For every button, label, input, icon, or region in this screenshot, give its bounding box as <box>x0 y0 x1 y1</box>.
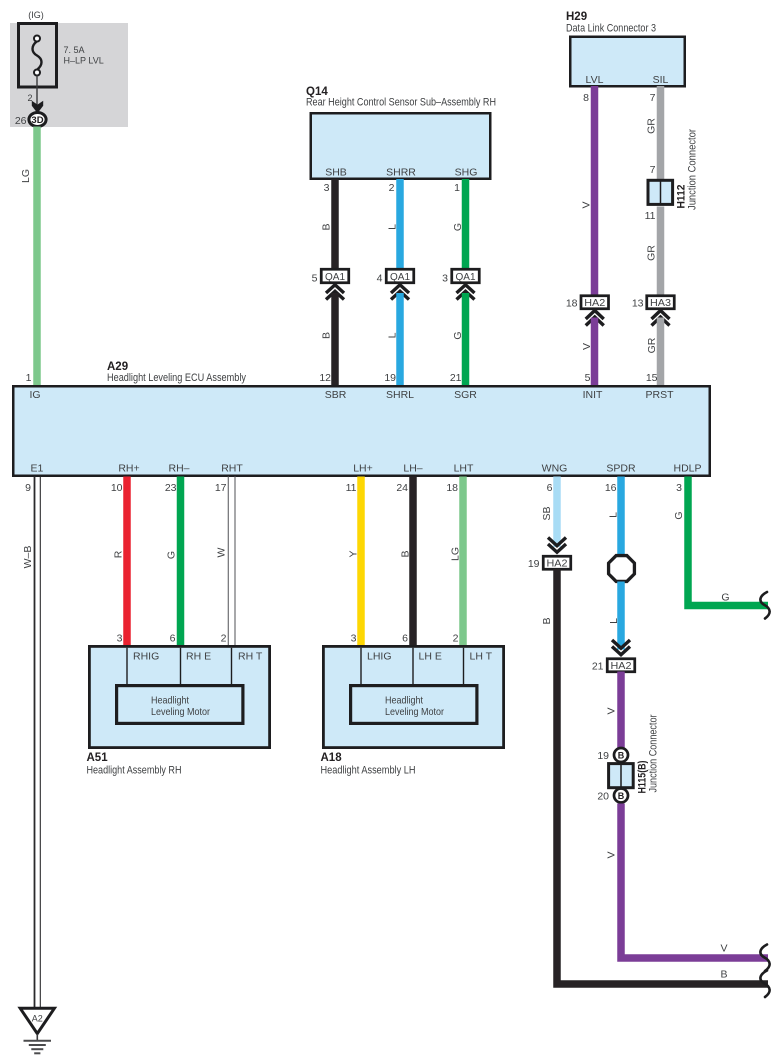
svg-text:QA1: QA1 <box>325 271 345 283</box>
svg-text:19: 19 <box>528 558 540 570</box>
svg-text:20: 20 <box>597 791 609 803</box>
svg-text:SHG: SHG <box>455 167 478 179</box>
svg-text:Junction Connector: Junction Connector <box>648 714 660 792</box>
svg-text:QA1: QA1 <box>456 271 476 283</box>
continuation squiggle V <box>760 945 769 972</box>
svg-text:17: 17 <box>215 482 227 494</box>
svg-text:3: 3 <box>442 273 448 285</box>
svg-text:B: B <box>618 791 625 801</box>
svg-text:LHT: LHT <box>454 463 474 475</box>
svg-text:LH E: LH E <box>419 651 442 663</box>
junction connector H112 <box>648 180 673 204</box>
svg-text:V: V <box>720 943 727 955</box>
svg-text:26: 26 <box>15 115 27 127</box>
svg-text:SHRL: SHRL <box>386 389 414 401</box>
svg-text:IG: IG <box>30 389 41 401</box>
wire W-B ground lead <box>34 477 36 1009</box>
svg-text:LH–: LH– <box>403 463 422 475</box>
svg-text:Leveling Motor: Leveling Motor <box>385 706 444 718</box>
divider LH T <box>463 648 465 684</box>
svg-text:Headlight Assembly RH: Headlight Assembly RH <box>87 765 182 777</box>
svg-text:A2: A2 <box>32 1014 43 1024</box>
svg-text:W–B: W–B <box>22 546 34 569</box>
wire R RH+ <box>123 477 131 646</box>
svg-text:A18: A18 <box>321 752 343 764</box>
wire G RH- <box>177 477 185 646</box>
svg-text:G: G <box>452 331 464 339</box>
svg-text:10: 10 <box>111 482 123 494</box>
svg-text:SB: SB <box>541 506 553 520</box>
svg-text:LH T: LH T <box>470 651 493 663</box>
svg-text:B: B <box>321 332 333 339</box>
divider LHIG <box>360 648 362 684</box>
svg-text:Headlight Leveling ECU Assembl: Headlight Leveling ECU Assembly <box>107 372 246 384</box>
ground hatch <box>24 1040 52 1042</box>
svg-text:11: 11 <box>346 482 357 494</box>
divider RH E <box>180 648 182 684</box>
svg-text:LH+: LH+ <box>353 463 373 475</box>
wire L SHRR upper <box>396 179 404 270</box>
svg-text:RH–: RH– <box>168 463 189 475</box>
fuse F1 box <box>19 24 57 88</box>
wire GR middle <box>657 207 665 296</box>
svg-text:SIL: SIL <box>653 74 669 86</box>
wire SB WNG <box>553 477 561 548</box>
svg-text:INIT: INIT <box>583 389 603 401</box>
wire GR SIL upper <box>657 86 665 180</box>
svg-text:13: 13 <box>632 298 644 310</box>
arrow into connector <box>32 101 43 113</box>
svg-text:HDLP: HDLP <box>673 463 701 475</box>
svg-text:L: L <box>608 618 620 624</box>
svg-text:V: V <box>606 707 618 714</box>
svg-text:V: V <box>581 343 593 350</box>
svg-text:SHRR: SHRR <box>386 167 416 179</box>
svg-text:LHIG: LHIG <box>367 651 392 663</box>
svg-text:12: 12 <box>319 372 331 384</box>
svg-text:HA2: HA2 <box>611 660 632 672</box>
svg-text:6: 6 <box>170 633 176 645</box>
svg-text:9: 9 <box>25 482 31 494</box>
wire L SPDR upper <box>617 477 625 557</box>
wire V INIT lower <box>591 318 599 387</box>
svg-text:Headlight Assembly LH: Headlight Assembly LH <box>321 765 416 777</box>
svg-text:8: 8 <box>583 92 589 104</box>
wire B SBR lower <box>331 293 339 386</box>
svg-text:16: 16 <box>605 482 617 494</box>
chevrons into HA2 <box>548 538 566 553</box>
fuse shaded area <box>10 23 128 127</box>
wire fuse to connector <box>36 76 38 113</box>
svg-text:4: 4 <box>377 273 383 285</box>
svg-text:Leveling Motor: Leveling Motor <box>151 706 210 718</box>
svg-text:21: 21 <box>592 661 604 673</box>
svg-text:15: 15 <box>646 372 658 384</box>
svg-text:2: 2 <box>453 633 459 645</box>
junction connector H115(B) <box>609 764 634 788</box>
svg-text:18: 18 <box>566 298 578 310</box>
svg-text:SGR: SGR <box>454 389 477 401</box>
svg-text:1: 1 <box>454 182 460 194</box>
svg-text:2: 2 <box>27 93 32 103</box>
wire B LH- <box>409 477 417 646</box>
svg-text:(IG): (IG) <box>28 10 44 20</box>
svg-text:L: L <box>387 224 399 230</box>
wire L SHRL lower <box>396 293 404 386</box>
svg-text:HA2: HA2 <box>584 297 605 309</box>
svg-text:Y: Y <box>348 550 360 557</box>
svg-text:SHB: SHB <box>325 167 347 179</box>
svg-text:V: V <box>581 201 593 208</box>
svg-text:LG: LG <box>450 547 462 561</box>
svg-text:23: 23 <box>165 482 177 494</box>
ground A2 <box>20 1008 54 1033</box>
wire G HDLP <box>688 477 768 606</box>
svg-text:6: 6 <box>547 482 553 494</box>
svg-text:7: 7 <box>650 92 656 104</box>
connector oval 3D <box>29 113 46 127</box>
wire V LVL upper <box>591 86 599 296</box>
svg-text:L: L <box>387 332 399 338</box>
ECU A29 box <box>13 386 710 476</box>
chevrons into HA2 <box>612 640 630 655</box>
headlight leveling motor LH <box>351 686 477 724</box>
svg-text:B: B <box>541 617 553 624</box>
wire B to splice <box>557 569 768 984</box>
svg-text:RH T: RH T <box>238 651 263 663</box>
svg-text:G: G <box>452 223 464 231</box>
svg-text:L: L <box>608 512 620 518</box>
wire L SPDR lower <box>617 582 625 650</box>
svg-text:QA1: QA1 <box>390 271 410 283</box>
wire V to junction <box>617 672 625 749</box>
svg-text:5: 5 <box>312 273 318 285</box>
svg-text:SPDR: SPDR <box>606 463 636 475</box>
continuation squiggle B <box>760 971 769 998</box>
svg-text:RHT: RHT <box>221 463 243 475</box>
svg-text:2: 2 <box>221 633 227 645</box>
svg-text:H–LP LVL: H–LP LVL <box>64 56 104 66</box>
divider LH E <box>412 648 414 684</box>
svg-text:V: V <box>606 851 618 858</box>
wire GR PRST lower <box>657 318 665 387</box>
svg-text:WNG: WNG <box>542 463 568 475</box>
svg-text:GR: GR <box>645 118 657 134</box>
svg-text:A51: A51 <box>87 752 109 764</box>
svg-text:21: 21 <box>450 372 462 384</box>
svg-text:19: 19 <box>384 372 396 384</box>
svg-text:E1: E1 <box>31 463 44 475</box>
wire LG LHT <box>459 477 467 646</box>
svg-text:LVL: LVL <box>586 74 604 86</box>
svg-text:3: 3 <box>351 633 357 645</box>
svg-text:G: G <box>673 511 685 519</box>
svg-text:W: W <box>216 547 228 557</box>
wire V to right edge <box>621 804 768 959</box>
svg-text:H29: H29 <box>566 11 587 23</box>
svg-text:RHIG: RHIG <box>133 651 159 663</box>
svg-text:6: 6 <box>402 633 408 645</box>
headlight leveling motor RH <box>117 686 243 724</box>
svg-text:Headlight: Headlight <box>151 695 189 707</box>
svg-text:Rear Height Control Sensor Sub: Rear Height Control Sensor Sub–Assembly … <box>306 97 496 109</box>
svg-text:Junction Connector: Junction Connector <box>687 129 699 210</box>
svg-text:PRST: PRST <box>645 389 674 401</box>
svg-text:GR: GR <box>646 337 658 353</box>
svg-text:7: 7 <box>650 164 656 176</box>
svg-text:B: B <box>400 550 412 557</box>
svg-text:3D: 3D <box>31 115 43 126</box>
continuation squiggle G <box>760 592 769 619</box>
wire W RHT <box>227 477 229 646</box>
svg-text:B: B <box>618 750 625 760</box>
svg-text:5: 5 <box>585 372 591 384</box>
noise filter octagon <box>609 556 635 582</box>
svg-text:HA3: HA3 <box>650 297 671 309</box>
svg-text:G: G <box>166 551 178 559</box>
svg-text:3: 3 <box>117 633 123 645</box>
svg-text:3: 3 <box>676 482 682 494</box>
svg-text:18: 18 <box>446 482 458 494</box>
svg-text:B: B <box>321 223 333 230</box>
wire LG IG feed <box>33 127 41 387</box>
svg-text:Data Link Connector 3: Data Link Connector 3 <box>566 23 656 35</box>
divider RHIG <box>126 648 128 684</box>
svg-text:LG: LG <box>20 169 32 183</box>
fuse symbol <box>33 41 42 70</box>
svg-text:RH E: RH E <box>186 651 211 663</box>
wire G SGR lower <box>462 293 470 386</box>
svg-text:19: 19 <box>597 750 609 762</box>
svg-text:11: 11 <box>645 210 656 222</box>
svg-text:SBR: SBR <box>325 389 347 401</box>
svg-text:R: R <box>113 550 125 558</box>
svg-text:2: 2 <box>389 182 395 194</box>
svg-text:RH+: RH+ <box>118 463 139 475</box>
svg-text:24: 24 <box>396 482 408 494</box>
divider RH T <box>231 648 233 684</box>
svg-text:1: 1 <box>26 372 32 384</box>
sensor Q14 box <box>311 113 491 179</box>
wire G SHG upper <box>462 179 470 270</box>
connector H29 box <box>570 37 685 87</box>
svg-text:3: 3 <box>324 182 330 194</box>
svg-text:GR: GR <box>645 245 657 261</box>
svg-text:G: G <box>721 592 729 604</box>
svg-text:B: B <box>720 969 727 981</box>
svg-text:7. 5A: 7. 5A <box>64 45 85 55</box>
svg-text:Headlight: Headlight <box>385 695 423 707</box>
headlight assembly A18 box <box>323 646 503 747</box>
wire B SHB upper <box>331 179 339 270</box>
wire Y LH+ <box>357 477 365 646</box>
svg-text:HA2: HA2 <box>547 558 568 570</box>
headlight assembly A51 box <box>89 646 269 747</box>
